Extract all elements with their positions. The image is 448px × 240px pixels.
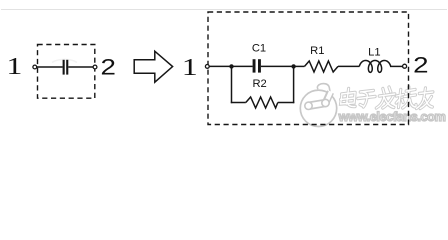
capacitor C1 [253, 59, 261, 72]
wire junction B to R1 [294, 65, 305, 67]
watermark logo [300, 84, 336, 127]
equivalence arrow [134, 51, 172, 82]
R2 branch right vertical wire [293, 66, 295, 103]
capacitor (left circuit) [63, 60, 69, 75]
node 1 terminal circle (right circuit) [205, 65, 209, 69]
junction B dot [291, 64, 295, 68]
dashed box (right equivalent circuit) [208, 12, 409, 125]
svg-text:R1: R1 [310, 45, 324, 57]
svg-text:www.elecfans.com: www.elecfans.com [338, 109, 446, 124]
wire junction A to C1 [232, 65, 253, 67]
svg-text:2: 2 [413, 53, 428, 78]
watermark chinese text outline pass [340, 87, 435, 109]
R2 branch left vertical wire [231, 66, 233, 103]
node 2 terminal circle (left circuit) [93, 65, 97, 69]
R2 branch left horizontal wire [231, 102, 246, 104]
svg-text:1: 1 [182, 54, 198, 81]
node 1 terminal circle (left circuit) [33, 65, 37, 69]
svg-text:C1: C1 [252, 43, 266, 55]
inductor L1 [359, 60, 390, 72]
watermark chinese text white core pass [340, 87, 435, 109]
faint ghost watermark arc (left box) [52, 59, 77, 62]
wire capacitor to node2 [68, 66, 93, 68]
svg-text:2: 2 [101, 54, 116, 79]
dashed box (left equivalent component) [38, 45, 95, 99]
R2 branch right horizontal wire [278, 102, 295, 104]
wire R1 to L1 [338, 65, 359, 67]
wire node1 to junction A [209, 65, 230, 67]
wire C1 to junction B [261, 65, 294, 67]
node 2 terminal circle (right circuit) [403, 64, 407, 68]
wire L1 to node 2 [390, 65, 403, 67]
junction A dot [229, 64, 233, 68]
svg-text:1: 1 [6, 53, 22, 80]
resistor R2 [246, 97, 278, 108]
resistor R1 [305, 61, 339, 72]
svg-text:R2: R2 [252, 78, 266, 90]
wire node1 to capacitor [37, 66, 63, 68]
svg-text:L1: L1 [368, 46, 380, 58]
faint top rule [1, 9, 447, 11]
